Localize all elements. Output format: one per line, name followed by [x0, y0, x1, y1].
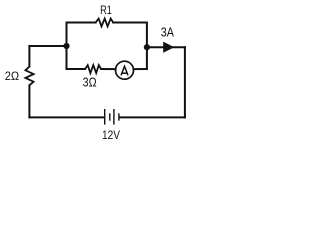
wire bottom branch right stub: [134, 68, 147, 70]
battery 12V plates: [105, 109, 119, 125]
svg-text:2Ω: 2Ω: [5, 69, 19, 83]
wire bottom right segment: [120, 116, 185, 118]
wire inner loop top-left: [67, 23, 96, 70]
svg-text:3A: 3A: [161, 25, 174, 40]
wire bottom left segment: [29, 116, 104, 118]
junction node right: [144, 44, 150, 50]
resistor R1: [96, 19, 114, 27]
wire right connector: [147, 46, 185, 48]
svg-text:12V: 12V: [102, 128, 120, 142]
wire bottom branch left stub: [67, 68, 86, 70]
wire bottom branch middle: [101, 68, 116, 70]
wire inner loop top-right: [113, 23, 147, 70]
resistor 2ohm: [25, 67, 33, 86]
junction node left: [63, 43, 69, 49]
svg-text:R1: R1: [100, 3, 112, 17]
wire left outer vertical upper: [28, 46, 30, 67]
ammeter letter A: [121, 66, 128, 75]
resistor 3ohm: [85, 65, 101, 73]
svg-text:3Ω: 3Ω: [83, 74, 97, 89]
current arrow 3A: [163, 42, 174, 53]
wire right outer vertical: [184, 47, 186, 117]
ammeter A: [116, 61, 134, 79]
wire left outer vertical lower: [28, 85, 30, 117]
wire left connector: [29, 45, 66, 47]
